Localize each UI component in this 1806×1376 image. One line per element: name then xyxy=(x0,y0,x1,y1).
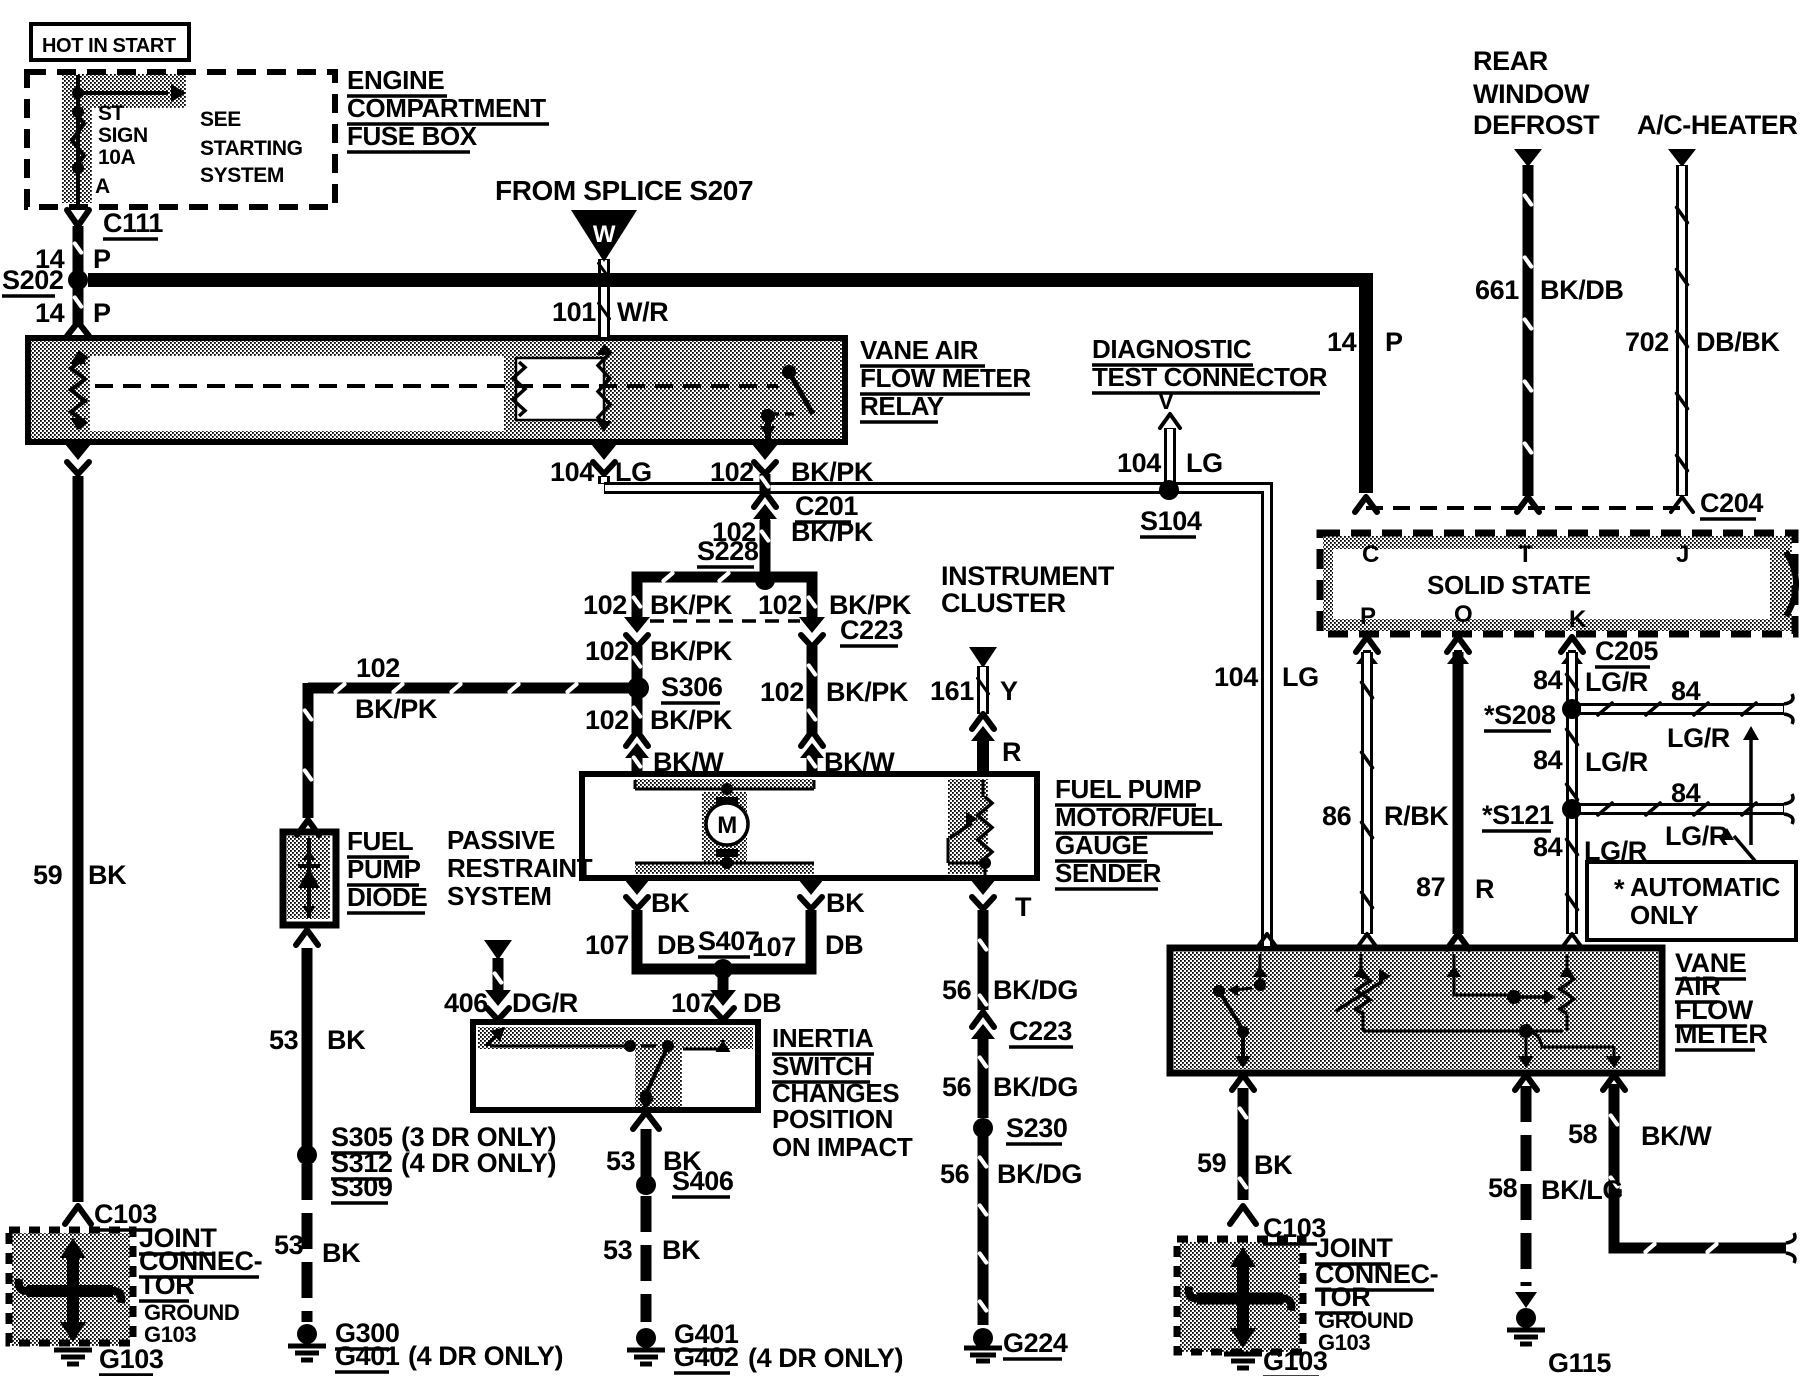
svg-text:104: 104 xyxy=(1214,662,1258,692)
svg-text:107: 107 xyxy=(752,932,796,962)
svg-text:BK: BK xyxy=(88,860,127,890)
svg-text:RESTRAINT: RESTRAINT xyxy=(447,853,593,883)
svg-text:LG/R: LG/R xyxy=(1585,747,1648,777)
svg-text:(4 DR ONLY): (4 DR ONLY) xyxy=(408,1341,563,1371)
svg-text:ENGINE: ENGINE xyxy=(347,65,444,95)
svg-text:59: 59 xyxy=(33,860,63,890)
svg-text:INERTIA: INERTIA xyxy=(772,1023,874,1053)
svg-text:M: M xyxy=(717,812,737,839)
svg-text:161: 161 xyxy=(930,676,974,706)
svg-text:LG/R: LG/R xyxy=(1667,723,1730,753)
svg-text:G103: G103 xyxy=(99,1344,164,1374)
svg-text:DB/BK: DB/BK xyxy=(1696,327,1780,357)
svg-text:*S121: *S121 xyxy=(1482,800,1554,830)
svg-text:BK/PK: BK/PK xyxy=(791,517,874,547)
svg-text:DIAGNOSTIC: DIAGNOSTIC xyxy=(1092,334,1252,364)
svg-text:84: 84 xyxy=(1671,676,1701,706)
svg-text:P: P xyxy=(93,298,111,328)
svg-text:T: T xyxy=(1518,541,1533,568)
svg-text:S407: S407 xyxy=(698,926,759,956)
svg-text:ST: ST xyxy=(98,102,125,125)
svg-text:COMPARTMENT: COMPARTMENT xyxy=(347,93,546,123)
svg-text:A/C-HEATER: A/C-HEATER xyxy=(1637,110,1798,140)
svg-text:56: 56 xyxy=(942,1072,972,1102)
svg-text:R: R xyxy=(1002,737,1021,767)
svg-text:S228: S228 xyxy=(697,536,759,566)
svg-text:LG: LG xyxy=(1186,448,1223,478)
svg-text:S104: S104 xyxy=(1140,506,1202,536)
svg-text:W: W xyxy=(593,221,616,248)
svg-text:BK/PK: BK/PK xyxy=(826,677,909,707)
svg-text:C205: C205 xyxy=(1595,636,1658,666)
svg-text:BK/DG: BK/DG xyxy=(997,1159,1082,1189)
svg-text:G401: G401 xyxy=(335,1341,400,1371)
svg-text:C223: C223 xyxy=(840,615,903,645)
svg-text:84: 84 xyxy=(1533,832,1563,862)
svg-text:10A: 10A xyxy=(98,146,136,169)
svg-text:BK: BK xyxy=(322,1238,361,1268)
svg-text:DB: DB xyxy=(825,930,863,960)
svg-text:BK/PK: BK/PK xyxy=(650,590,733,620)
svg-text:102: 102 xyxy=(758,590,802,620)
svg-text:R: R xyxy=(1475,874,1494,904)
svg-text:56: 56 xyxy=(940,1159,970,1189)
svg-text:DG/R: DG/R xyxy=(512,988,578,1018)
svg-text:C: C xyxy=(1362,541,1379,568)
svg-text:T: T xyxy=(1015,892,1032,922)
svg-text:DB: DB xyxy=(657,930,695,960)
svg-text:ONLY: ONLY xyxy=(1630,900,1698,930)
svg-text:C204: C204 xyxy=(1700,488,1763,518)
svg-text:O: O xyxy=(1454,601,1472,628)
svg-text:RELAY: RELAY xyxy=(860,391,944,421)
svg-text:FLOW METER: FLOW METER xyxy=(860,363,1031,393)
svg-text:PASSIVE: PASSIVE xyxy=(447,825,555,855)
svg-text:58: 58 xyxy=(1488,1173,1518,1203)
svg-text:S306: S306 xyxy=(661,672,723,702)
svg-text:107: 107 xyxy=(585,930,629,960)
svg-text:S202: S202 xyxy=(2,265,63,295)
svg-text:59: 59 xyxy=(1197,1148,1227,1178)
svg-text:84: 84 xyxy=(1671,778,1701,808)
svg-text:V: V xyxy=(1158,388,1174,415)
svg-text:G103: G103 xyxy=(1263,1346,1328,1376)
svg-text:A: A xyxy=(95,175,110,198)
svg-text:METER: METER xyxy=(1675,1019,1768,1049)
svg-text:DIODE: DIODE xyxy=(347,882,427,912)
svg-text:Y: Y xyxy=(1000,676,1018,706)
svg-text:C223: C223 xyxy=(1009,1016,1072,1046)
svg-text:BK/DG: BK/DG xyxy=(993,975,1078,1005)
svg-text:84: 84 xyxy=(1533,745,1563,775)
svg-text:101: 101 xyxy=(552,297,596,327)
svg-text:BK/DB: BK/DB xyxy=(1540,275,1624,305)
svg-text:TOR: TOR xyxy=(139,1270,194,1300)
svg-text:BK/LG: BK/LG xyxy=(1541,1175,1623,1205)
svg-text:J: J xyxy=(1676,541,1689,568)
svg-text:53: 53 xyxy=(606,1146,636,1176)
svg-text:104: 104 xyxy=(550,457,594,487)
svg-text:POSITION: POSITION xyxy=(772,1104,893,1134)
svg-text:LG/R: LG/R xyxy=(1584,836,1647,866)
svg-text:14: 14 xyxy=(1327,327,1357,357)
svg-text:53: 53 xyxy=(269,1025,299,1055)
svg-text:BK: BK xyxy=(327,1025,366,1055)
svg-text:SYSTEM: SYSTEM xyxy=(447,881,552,911)
svg-text:BK/DG: BK/DG xyxy=(993,1072,1078,1102)
svg-text:LG: LG xyxy=(1282,662,1319,692)
svg-text:(4 DR ONLY): (4 DR ONLY) xyxy=(748,1343,903,1373)
svg-text:AUTOMATIC: AUTOMATIC xyxy=(1630,872,1781,902)
svg-text:LG/R: LG/R xyxy=(1665,821,1728,851)
svg-text:BK: BK xyxy=(826,888,865,918)
svg-text:107: 107 xyxy=(671,988,715,1018)
svg-text:BK/PK: BK/PK xyxy=(650,705,733,735)
svg-text:53: 53 xyxy=(603,1235,633,1265)
svg-text:DB: DB xyxy=(743,988,781,1018)
svg-text:58: 58 xyxy=(1568,1119,1598,1149)
svg-text:BK/PK: BK/PK xyxy=(791,457,874,487)
svg-text:BK/W: BK/W xyxy=(824,747,895,777)
svg-text:BK/PK: BK/PK xyxy=(650,636,733,666)
svg-text:MOTOR/FUEL: MOTOR/FUEL xyxy=(1055,802,1223,832)
svg-text:S406: S406 xyxy=(672,1166,734,1196)
svg-text:P: P xyxy=(93,244,111,274)
svg-text:104: 104 xyxy=(1117,448,1161,478)
svg-text:S230: S230 xyxy=(1006,1113,1067,1143)
svg-text:FUSE BOX: FUSE BOX xyxy=(347,121,478,151)
svg-text:14: 14 xyxy=(35,298,65,328)
svg-text:FUEL: FUEL xyxy=(347,826,414,856)
svg-text:SENDER: SENDER xyxy=(1055,858,1162,888)
svg-text:SWITCH: SWITCH xyxy=(772,1051,872,1081)
svg-text:REAR: REAR xyxy=(1473,46,1548,76)
svg-text:102: 102 xyxy=(356,653,400,683)
svg-text:C111: C111 xyxy=(103,208,163,238)
svg-text:LG: LG xyxy=(615,457,652,487)
svg-text:GAUGE: GAUGE xyxy=(1055,830,1148,860)
svg-text:INSTRUMENT: INSTRUMENT xyxy=(941,561,1115,591)
svg-text:86: 86 xyxy=(1322,801,1352,831)
svg-text:BK/PK: BK/PK xyxy=(355,694,438,724)
svg-text:(4 DR ONLY): (4 DR ONLY) xyxy=(401,1148,556,1178)
svg-text:102: 102 xyxy=(585,705,629,735)
svg-text:S309: S309 xyxy=(331,1172,393,1202)
svg-text:FROM SPLICE S207: FROM SPLICE S207 xyxy=(495,175,753,206)
svg-text:VANE AIR: VANE AIR xyxy=(860,335,979,365)
svg-text:SOLID STATE: SOLID STATE xyxy=(1427,570,1591,600)
svg-text:ON IMPACT: ON IMPACT xyxy=(772,1132,913,1162)
svg-text:P: P xyxy=(1385,327,1403,357)
svg-text:BK/W: BK/W xyxy=(1641,1121,1712,1151)
svg-text:87: 87 xyxy=(1416,872,1445,902)
svg-text:FUEL PUMP: FUEL PUMP xyxy=(1055,774,1201,804)
svg-text:102: 102 xyxy=(583,590,627,620)
svg-text:STARTING: STARTING xyxy=(200,137,303,160)
svg-text:CLUSTER: CLUSTER xyxy=(941,588,1066,618)
svg-text:*S208: *S208 xyxy=(1484,700,1556,730)
svg-text:SYSTEM: SYSTEM xyxy=(200,164,284,187)
svg-text:K: K xyxy=(1569,606,1587,633)
svg-text:WINDOW: WINDOW xyxy=(1473,79,1590,109)
svg-text:TEST CONNECTOR: TEST CONNECTOR xyxy=(1092,362,1328,392)
svg-text:W/R: W/R xyxy=(617,297,668,327)
svg-text:R/BK: R/BK xyxy=(1384,801,1449,831)
svg-text:702: 702 xyxy=(1625,327,1669,357)
svg-text:BK: BK xyxy=(662,1235,701,1265)
svg-text:LG/R: LG/R xyxy=(1585,667,1648,697)
svg-text:661: 661 xyxy=(1475,275,1519,305)
svg-text:P: P xyxy=(1360,603,1376,630)
svg-text:G115: G115 xyxy=(1548,1348,1611,1376)
svg-text:G224: G224 xyxy=(1003,1328,1068,1358)
svg-text:BK: BK xyxy=(1254,1150,1293,1180)
svg-text:G402: G402 xyxy=(674,1342,738,1372)
svg-text:SIGN: SIGN xyxy=(98,124,148,147)
svg-text:406: 406 xyxy=(444,988,488,1018)
svg-text:102: 102 xyxy=(760,677,804,707)
svg-text:*: * xyxy=(1614,874,1625,904)
svg-text:84: 84 xyxy=(1533,665,1563,695)
svg-text:102: 102 xyxy=(585,636,629,666)
svg-text:PUMP: PUMP xyxy=(347,854,421,884)
svg-text:BK/W: BK/W xyxy=(653,747,724,777)
svg-text:BK: BK xyxy=(651,888,690,918)
svg-text:102: 102 xyxy=(710,457,754,487)
svg-text:56: 56 xyxy=(942,975,972,1005)
svg-text:DEFROST: DEFROST xyxy=(1473,110,1600,140)
svg-text:53: 53 xyxy=(274,1230,304,1260)
svg-text:SEE: SEE xyxy=(200,108,241,131)
svg-text:HOT IN START: HOT IN START xyxy=(42,35,176,57)
